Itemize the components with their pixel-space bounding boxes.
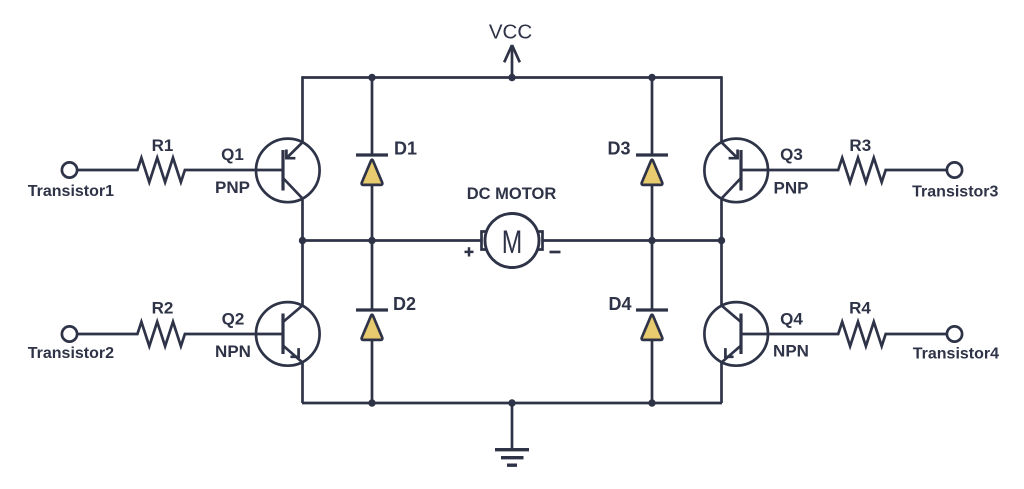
wire left vertical lower (Q2 emitter to ground rail)	[301, 363, 304, 404]
node top rail / D3 junction	[648, 74, 655, 81]
resistor R2	[78, 322, 284, 346]
svg-text:R4: R4	[849, 299, 871, 318]
motor plus sign	[465, 247, 474, 256]
svg-text:Transistor4: Transistor4	[913, 346, 999, 363]
svg-text:Q1: Q1	[221, 145, 244, 164]
resistor R1	[78, 158, 284, 182]
terminal Transistor4	[947, 326, 962, 341]
node bottom rail / D4 junction	[648, 399, 655, 406]
node bottom rail / D2 junction	[368, 399, 375, 406]
wire bottom rail	[302, 402, 722, 405]
wire left vertical middle (Q1 collector to Q2 collector)	[301, 199, 304, 306]
svg-text:D1: D1	[394, 139, 417, 159]
terminal Transistor1	[62, 162, 77, 177]
wire D1 top lead	[371, 78, 374, 154]
svg-text:Transistor3: Transistor3	[912, 184, 998, 201]
DC motor M1	[482, 214, 543, 268]
svg-text:Q4: Q4	[780, 310, 803, 329]
wire middle rail right	[542, 239, 722, 242]
svg-text:NPN: NPN	[215, 342, 251, 361]
transistor Q3 (PNP)	[704, 139, 768, 203]
svg-text:D3: D3	[607, 139, 630, 159]
svg-text:R1: R1	[152, 136, 174, 155]
svg-text:R2: R2	[152, 299, 174, 318]
wire middle rail left	[302, 239, 482, 242]
svg-text:PNP: PNP	[774, 179, 809, 198]
wire right vertical lower (Q4 emitter to ground rail)	[720, 363, 723, 404]
wire D4 top lead	[651, 241, 654, 309]
svg-text:DC MOTOR: DC MOTOR	[467, 185, 557, 203]
svg-text:NPN: NPN	[773, 342, 809, 361]
diode D2	[356, 310, 388, 340]
wire D2 bottom lead	[371, 340, 374, 403]
svg-text:Q3: Q3	[780, 145, 803, 164]
svg-text:Transistor1: Transistor1	[28, 183, 114, 200]
wire top rail	[302, 76, 722, 79]
VCC power symbol	[504, 45, 520, 78]
node middle rail / D4 junction	[648, 237, 655, 244]
wire D3 top lead	[651, 78, 654, 154]
transistor Q4 (NPN)	[704, 302, 768, 366]
diode D3	[636, 155, 668, 185]
transistor Q1 (PNP)	[256, 139, 320, 203]
motor minus sign	[550, 251, 561, 254]
svg-text:R3: R3	[849, 136, 871, 155]
svg-text:VCC: VCC	[489, 21, 532, 44]
terminal Transistor3	[947, 162, 962, 177]
transistor Q2 (NPN)	[256, 302, 320, 366]
node top rail / VCC junction	[508, 74, 515, 81]
svg-text:Q2: Q2	[222, 310, 245, 329]
node middle rail / left vertical junction	[299, 237, 306, 244]
svg-text:Transistor2: Transistor2	[28, 345, 114, 362]
ground	[495, 403, 529, 465]
node middle rail / D2 junction	[368, 237, 375, 244]
wire D4 bottom lead	[651, 340, 654, 403]
svg-text:D2: D2	[393, 294, 416, 314]
wire left vertical upper (VCC rail to Q1 emitter)	[301, 76, 304, 142]
terminal Transistor2	[62, 326, 77, 341]
wire right vertical middle (Q3 collector to Q4 collector)	[720, 199, 723, 306]
svg-text:M: M	[502, 224, 523, 260]
wire D2 top lead	[371, 241, 374, 309]
resistor R4	[741, 322, 947, 346]
wire D1 bottom lead	[371, 185, 374, 241]
svg-text:D4: D4	[608, 294, 631, 314]
wire right vertical upper (VCC rail to Q3 emitter)	[720, 76, 723, 142]
resistor R3	[741, 158, 947, 182]
svg-text:PNP: PNP	[215, 178, 250, 197]
diode D4	[636, 310, 668, 340]
node bottom rail / ground junction	[508, 399, 515, 406]
node middle rail / right vertical junction	[718, 237, 725, 244]
wire D3 bottom lead	[651, 185, 654, 241]
node top rail / D1 junction	[368, 74, 375, 81]
diode D1	[356, 155, 388, 185]
